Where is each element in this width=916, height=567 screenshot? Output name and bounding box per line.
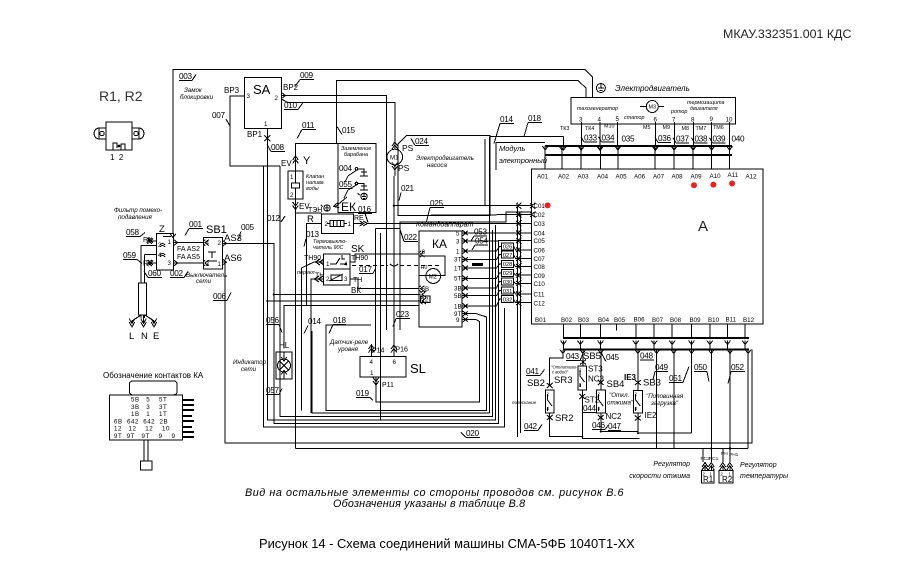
svg-text:ТН90: ТН90 bbox=[304, 255, 321, 262]
svg-text:027: 027 bbox=[503, 253, 513, 259]
svg-text:057: 057 bbox=[266, 386, 280, 395]
svg-text:ТМ7: ТМ7 bbox=[696, 126, 707, 132]
contact 004 bbox=[339, 164, 368, 176]
svg-text:044: 044 bbox=[583, 404, 597, 413]
svg-text:КА: КА bbox=[432, 237, 447, 251]
svg-text:Рисунок 14 - Схема соединений: Рисунок 14 - Схема соединений машины СМА… bbox=[259, 536, 635, 551]
thermistor TH box bbox=[324, 269, 350, 285]
wire IE2 bottom bbox=[638, 413, 692, 433]
svg-text:B09: B09 bbox=[690, 317, 702, 324]
label 043 bbox=[566, 352, 584, 361]
svg-text:052: 052 bbox=[731, 363, 745, 372]
svg-text:4: 4 bbox=[206, 240, 210, 247]
svg-text:B06: B06 bbox=[634, 317, 646, 324]
svg-text:059: 059 bbox=[123, 251, 137, 260]
svg-text:РС1: РС1 bbox=[709, 456, 719, 462]
svg-text:ТЭН: ТЭН bbox=[308, 207, 322, 214]
svg-text:2: 2 bbox=[547, 392, 550, 397]
X mark above SB2 bbox=[547, 383, 553, 388]
svg-text:4: 4 bbox=[598, 406, 601, 411]
label 003 bbox=[179, 72, 196, 81]
svg-text:042: 042 bbox=[524, 422, 538, 431]
level sensor SL bbox=[360, 357, 406, 378]
svg-text:Н0: Н0 bbox=[421, 265, 428, 271]
thermal switch SK (TH90) bbox=[324, 254, 350, 269]
wires 004/055 to ground bbox=[344, 170, 357, 198]
svg-text:SL: SL bbox=[410, 361, 426, 376]
wire pump box bottom to C02 bbox=[398, 215, 530, 216]
wire drum-ground to motor (second top line) bbox=[337, 81, 587, 144]
svg-text:А: А bbox=[698, 218, 708, 235]
boxed wire labels 026-032 bbox=[502, 243, 514, 304]
pump enclosure box 024 bbox=[398, 136, 490, 216]
main motor box bbox=[571, 98, 736, 124]
svg-text:сети: сети bbox=[196, 278, 212, 285]
svg-text:043: 043 bbox=[566, 352, 580, 361]
label 046 bbox=[592, 421, 608, 430]
X mark above SB3 button bbox=[635, 380, 641, 385]
label 021 bbox=[399, 184, 415, 201]
svg-text:047: 047 bbox=[608, 422, 622, 431]
svg-text:A03: A03 bbox=[578, 174, 590, 181]
svg-text:BP3: BP3 bbox=[224, 86, 240, 95]
svg-text:046: 046 bbox=[592, 421, 606, 430]
svg-text:040: 040 bbox=[732, 135, 746, 144]
svg-text:A01: A01 bbox=[537, 174, 549, 181]
svg-text:насоса: насоса bbox=[427, 162, 447, 169]
label 006 bbox=[213, 292, 231, 301]
svg-text:М1: М1 bbox=[390, 155, 399, 162]
label 052 bbox=[728, 363, 745, 384]
svg-text:P16: P16 bbox=[396, 347, 409, 354]
label 018 bbox=[524, 114, 542, 137]
svg-text:М3: М3 bbox=[649, 105, 657, 111]
contact x-marks at KA edge bbox=[463, 231, 467, 322]
svg-text:PS: PS bbox=[398, 163, 410, 173]
svg-text:скорости отжима: скорости отжима bbox=[629, 473, 690, 480]
label 002 bbox=[170, 269, 188, 278]
svg-text:SK: SK bbox=[351, 244, 365, 255]
svg-text:BP1: BP1 bbox=[247, 130, 263, 139]
svg-text:C08: C08 bbox=[534, 264, 546, 271]
svg-text:NC2: NC2 bbox=[606, 412, 623, 421]
svg-text:6В: 6В bbox=[422, 286, 430, 293]
svg-text:C05: C05 bbox=[534, 238, 546, 245]
svg-text:048: 048 bbox=[640, 352, 654, 361]
svg-text:FA AS2: FA AS2 bbox=[177, 246, 200, 253]
svg-text:025: 025 bbox=[430, 199, 444, 208]
svg-text:A02: A02 bbox=[558, 174, 570, 181]
svg-text:L: L bbox=[129, 331, 134, 342]
label 020 bbox=[461, 429, 480, 438]
svg-text:4: 4 bbox=[370, 359, 374, 366]
svg-text:сети: сети bbox=[241, 366, 257, 373]
B pin verticals down to button bus bbox=[564, 324, 746, 350]
label 019 bbox=[356, 389, 373, 401]
svg-text:загрузка": загрузка" bbox=[650, 400, 679, 407]
svg-text:034: 034 bbox=[602, 134, 616, 143]
svg-text:Датчик-реле: Датчик-реле bbox=[329, 339, 369, 346]
svg-text:Обозначения указаны в таблице: Обозначения указаны в таблице В.8 bbox=[333, 498, 525, 510]
svg-text:с водой": с водой" bbox=[552, 370, 569, 375]
red dots A09 A10 A11 bbox=[691, 182, 697, 188]
button ST2/NC2 (SB4 spin off) bbox=[596, 390, 605, 413]
svg-text:Регулятор: Регулятор bbox=[653, 461, 690, 468]
svg-text:12 12 12 10: 12 12 12 10 bbox=[114, 426, 170, 433]
svg-text:РН: РН bbox=[721, 451, 728, 457]
svg-text:2: 2 bbox=[218, 240, 222, 247]
svg-text:014: 014 bbox=[308, 317, 322, 326]
svg-text:5: 5 bbox=[616, 116, 620, 123]
svg-text:6: 6 bbox=[654, 117, 658, 124]
label 009 bbox=[295, 71, 314, 87]
svg-text:R1, R2: R1, R2 bbox=[99, 88, 143, 104]
motor ground symbol bbox=[596, 84, 605, 93]
svg-text:ротор: ротор bbox=[670, 109, 687, 115]
door lock SA bbox=[245, 77, 282, 128]
svg-text:029: 029 bbox=[503, 271, 513, 277]
svg-text:039: 039 bbox=[713, 135, 727, 144]
button bus bars bbox=[563, 338, 749, 350]
svg-text:P11: P11 bbox=[382, 382, 394, 389]
svg-text:SB4: SB4 bbox=[607, 379, 625, 390]
svg-text:035: 035 bbox=[622, 135, 636, 144]
thick black dash on wire 028 bbox=[472, 263, 483, 266]
svg-text:ВК: ВК bbox=[351, 286, 361, 295]
label 014b bbox=[304, 317, 322, 334]
wire P11 (019) loop to KA contact 9 bbox=[376, 320, 480, 402]
svg-text:3В 3 3Т: 3В 3 3Т bbox=[131, 404, 167, 411]
vertical harness bundle through KA contact rows bbox=[485, 136, 563, 413]
svg-text:041: 041 bbox=[526, 367, 540, 376]
svg-text:полоскание: полоскание bbox=[512, 400, 537, 405]
svg-text:037: 037 bbox=[676, 135, 690, 144]
wire TH90 right pin to KA 6 bbox=[350, 254, 419, 262]
svg-text:3: 3 bbox=[247, 93, 251, 100]
svg-text:М9: М9 bbox=[663, 125, 671, 131]
button SB2 (rinse hold) bbox=[545, 390, 554, 413]
motor harness wire labels TK3 TK4 M10 M5 M9 M8 TM7 TM6 bbox=[560, 124, 724, 133]
svg-text:электронный: электронный bbox=[499, 156, 548, 165]
enclosure 018 around SL bbox=[326, 314, 487, 411]
svg-text:3: 3 bbox=[344, 276, 348, 283]
svg-text:3: 3 bbox=[168, 260, 172, 267]
svg-text:022: 022 bbox=[404, 233, 418, 242]
svg-text:9: 9 bbox=[710, 116, 714, 123]
KA right contact wires with arrows bbox=[462, 233, 488, 319]
wire Z pin top from frame bbox=[172, 226, 174, 234]
svg-text:1В 1 1Т: 1В 1 1Т bbox=[131, 411, 167, 418]
svg-text:013: 013 bbox=[306, 230, 320, 239]
enclosure 014 bbox=[312, 331, 490, 413]
A pin vertical wires from bus to module bbox=[545, 146, 729, 169]
junction dots bbox=[266, 205, 731, 450]
label 054 bbox=[472, 237, 489, 251]
heating element R/RE box bbox=[322, 214, 354, 233]
svg-text:A06: A06 bbox=[634, 174, 646, 181]
svg-text:019: 019 bbox=[356, 389, 370, 398]
svg-text:2: 2 bbox=[325, 221, 329, 228]
svg-text:050: 050 bbox=[694, 363, 708, 372]
svg-text:чатель 90С: чатель 90С bbox=[313, 245, 343, 251]
wire BP3 from SA to valve EV bbox=[230, 96, 280, 166]
svg-text:002: 002 bbox=[170, 269, 184, 278]
x marks on FA wires bbox=[149, 239, 154, 266]
svg-text:C09: C09 bbox=[534, 273, 546, 280]
svg-text:SA: SA bbox=[253, 82, 271, 97]
svg-text:Командоаппарат: Командоаппарат bbox=[416, 221, 474, 229]
svg-text:B12: B12 bbox=[743, 317, 755, 324]
svg-text:060: 060 bbox=[148, 269, 162, 278]
KA left contact 12 (boxed) bbox=[421, 296, 431, 303]
label 001 bbox=[185, 220, 203, 236]
svg-text:021: 021 bbox=[401, 184, 415, 193]
label 007 bbox=[212, 111, 230, 126]
svg-text:005: 005 bbox=[241, 223, 255, 232]
svg-text:B11: B11 bbox=[726, 317, 737, 324]
svg-text:A10: A10 bbox=[710, 173, 722, 180]
svg-text:барабана: барабана bbox=[344, 152, 368, 158]
label 012 bbox=[267, 214, 285, 223]
wire SR3 bottom down (ST2/044) bbox=[582, 390, 639, 439]
drum grounding box Заземление барабана bbox=[338, 144, 376, 213]
svg-text:C01: C01 bbox=[534, 203, 546, 210]
wire M1 bottom down and to C01 bbox=[393, 176, 395, 357]
svg-text:045: 045 bbox=[606, 353, 620, 362]
svg-text:1: 1 bbox=[326, 261, 330, 268]
label 010 bbox=[284, 101, 303, 110]
svg-text:2: 2 bbox=[598, 392, 601, 397]
svg-text:2: 2 bbox=[635, 392, 638, 397]
label 060 bbox=[144, 269, 162, 278]
R pins vertical stubs bbox=[705, 467, 730, 471]
wire BP2 from SA pin2 to pump bundle bbox=[282, 96, 387, 331]
svg-text:ТК4: ТК4 bbox=[585, 126, 594, 132]
svg-text:SR3: SR3 bbox=[554, 375, 572, 386]
wire AS3 (005) from SB1 to KA bbox=[222, 243, 420, 294]
wires KA contacts to module C04..C10 bbox=[476, 233, 516, 306]
motor symbol M3 bbox=[640, 101, 664, 113]
svg-text:C07: C07 bbox=[534, 256, 546, 263]
svg-text:R2: R2 bbox=[722, 475, 733, 484]
C pin labels bbox=[534, 203, 546, 308]
svg-text:053: 053 bbox=[474, 228, 488, 237]
red dot C01 bbox=[545, 202, 551, 208]
svg-text:4: 4 bbox=[598, 117, 602, 124]
wire heater pin2 left down bbox=[307, 224, 322, 306]
svg-text:SR2: SR2 bbox=[555, 413, 573, 424]
svg-text:028: 028 bbox=[503, 262, 513, 268]
svg-text:004: 004 bbox=[339, 164, 353, 173]
table bottom connector bbox=[144, 440, 148, 461]
svg-text:AS6: AS6 bbox=[224, 253, 242, 264]
svg-text:018: 018 bbox=[528, 114, 542, 123]
svg-text:ТН90: ТН90 bbox=[351, 255, 368, 262]
svg-text:двигателя: двигателя bbox=[690, 106, 718, 112]
dashed mechanical link TH90 to KA motor bbox=[352, 265, 388, 267]
wire TH left pin down bbox=[311, 279, 324, 413]
label 050 bbox=[694, 363, 709, 382]
svg-text:B05: B05 bbox=[614, 317, 626, 324]
svg-text:уровня: уровня bbox=[337, 346, 359, 353]
svg-text:C12: C12 bbox=[534, 301, 546, 308]
label 057 bbox=[266, 386, 282, 395]
label 013 bbox=[304, 230, 320, 247]
svg-text:4: 4 bbox=[547, 406, 550, 411]
X mark above SR3 bbox=[580, 360, 586, 365]
svg-text:Электродвигатель: Электродвигатель bbox=[416, 155, 474, 162]
svg-text:ЕК: ЕК bbox=[341, 200, 356, 214]
svg-text:"Откл.: "Откл. bbox=[609, 392, 629, 399]
module C pin entry arrows bbox=[516, 206, 532, 303]
label 047 bbox=[608, 422, 622, 431]
svg-text:5Т: 5Т bbox=[454, 276, 461, 283]
svg-text:032: 032 bbox=[503, 297, 513, 303]
svg-text:5В 5 5Т: 5В 5 5Т bbox=[131, 397, 167, 404]
wire BP1 (008) from SA pin1 down bbox=[267, 128, 420, 301]
svg-text:Модуль: Модуль bbox=[499, 144, 525, 153]
svg-text:9: 9 bbox=[456, 317, 460, 324]
svg-text:2: 2 bbox=[326, 276, 330, 283]
svg-text:Электродвигатель: Электродвигатель bbox=[615, 84, 690, 93]
wires at y448.5 feeding R1 R2 pins bbox=[703, 449, 730, 463]
electronic module A big box bbox=[532, 169, 763, 324]
svg-text:031: 031 bbox=[503, 289, 513, 295]
label 024 bbox=[411, 137, 429, 146]
svg-text:006: 006 bbox=[213, 292, 227, 301]
svg-text:отжима": отжима" bbox=[607, 400, 634, 407]
svg-text:N: N bbox=[141, 331, 148, 342]
svg-text:RE: RE bbox=[354, 215, 364, 222]
label 048 bbox=[640, 352, 654, 361]
verticals below button bus bbox=[550, 350, 748, 463]
button IE3/IE2 (SB3 half load) bbox=[634, 390, 643, 413]
ground symbol in drum box bbox=[358, 193, 367, 199]
X mark above SB4 button bbox=[598, 380, 604, 385]
svg-text:1Т: 1Т bbox=[454, 266, 461, 273]
regulator R1/R2 component symbol bbox=[94, 122, 144, 150]
svg-text:B10: B10 bbox=[708, 317, 720, 324]
table right pins bbox=[182, 400, 194, 437]
svg-text:C04: C04 bbox=[534, 231, 546, 238]
svg-text:1: 1 bbox=[218, 261, 222, 268]
svg-text:3: 3 bbox=[579, 117, 583, 124]
svg-text:018: 018 bbox=[333, 316, 347, 325]
wire SB2 bottom (SR2/042) bbox=[550, 413, 583, 437]
svg-text:015: 015 bbox=[342, 126, 356, 135]
svg-text:ТК3: ТК3 bbox=[560, 126, 569, 132]
svg-text:Обозначение контактов КА: Обозначение контактов КА bbox=[103, 371, 204, 380]
svg-text:B08: B08 bbox=[670, 317, 682, 324]
label 056 bbox=[266, 316, 282, 333]
noise filter Z bbox=[156, 224, 173, 270]
wires into Z left pins bbox=[147, 240, 157, 242]
svg-text:Регулятор: Регулятор bbox=[740, 462, 777, 469]
svg-text:4: 4 bbox=[579, 383, 582, 388]
temperature/speed regulators R1 R2 bbox=[701, 471, 714, 484]
svg-text:C11: C11 bbox=[534, 292, 545, 299]
electronic module label box (Модуль электронный) bbox=[496, 143, 545, 170]
svg-text:017: 017 bbox=[359, 265, 373, 274]
wire 003 loop: top frame from Z filter up and across to motor bbox=[173, 70, 593, 227]
svg-text:007: 007 bbox=[212, 111, 226, 120]
wire 010 from SA to bundle bbox=[282, 99, 395, 141]
mains cable from Z down bbox=[141, 246, 145, 284]
wire NC2 bottom bbox=[601, 413, 638, 432]
svg-text:049: 049 bbox=[655, 363, 669, 372]
svg-text:Фильтр помехо-: Фильтр помехо- bbox=[114, 207, 162, 214]
button SR3 of SB5 bbox=[578, 366, 587, 390]
svg-text:4: 4 bbox=[635, 406, 638, 411]
label 014 bbox=[494, 115, 514, 144]
mains ground arrows L N E bbox=[132, 315, 154, 324]
svg-text:AS3: AS3 bbox=[224, 233, 242, 244]
svg-text:036: 036 bbox=[658, 134, 672, 143]
svg-text:A11: A11 bbox=[728, 172, 739, 179]
label 044 bbox=[583, 404, 597, 413]
svg-text:1: 1 bbox=[456, 249, 460, 256]
svg-text:статор: статор bbox=[624, 115, 645, 121]
svg-text:024: 024 bbox=[415, 137, 429, 146]
svg-text:МКАУ.332351.001 КДС: МКАУ.332351.001 КДС bbox=[723, 27, 851, 41]
svg-text:5В: 5В bbox=[454, 293, 462, 300]
svg-text:020: 020 bbox=[466, 429, 480, 438]
svg-text:ТМ6: ТМ6 bbox=[713, 125, 724, 131]
svg-text:1: 1 bbox=[370, 370, 374, 377]
motor pin wires down to bus bbox=[564, 122, 730, 146]
svg-text:051: 051 bbox=[669, 374, 683, 383]
svg-text:6В 642 642 2В: 6В 642 642 2В bbox=[114, 418, 168, 425]
svg-text:3: 3 bbox=[456, 239, 460, 246]
B pin labels bbox=[535, 317, 755, 325]
svg-text:блокировки: блокировки bbox=[180, 94, 214, 101]
svg-text:C02: C02 bbox=[534, 212, 546, 219]
svg-text:1: 1 bbox=[168, 239, 172, 246]
svg-text:6: 6 bbox=[393, 359, 397, 366]
svg-text:1В: 1В bbox=[454, 304, 462, 311]
svg-text:E: E bbox=[153, 331, 159, 342]
enclosure 056 bbox=[280, 166, 493, 417]
svg-text:температуры: температуры bbox=[740, 473, 789, 480]
svg-text:IE3: IE3 bbox=[624, 373, 637, 382]
label 016 bbox=[358, 205, 372, 223]
svg-text:1: 1 bbox=[264, 121, 268, 128]
svg-text:2: 2 bbox=[290, 192, 294, 199]
svg-text:6: 6 bbox=[422, 249, 426, 256]
svg-text:7: 7 bbox=[672, 117, 676, 124]
svg-text:B01: B01 bbox=[535, 317, 547, 324]
svg-text:воды: воды bbox=[306, 186, 319, 192]
svg-text:EV: EV bbox=[281, 159, 292, 168]
svg-text:М2: М2 bbox=[429, 274, 438, 280]
svg-text:2: 2 bbox=[275, 95, 279, 102]
water valve Y bbox=[296, 144, 338, 171]
R1 R2 pin arrows bbox=[702, 463, 708, 471]
svg-text:B02: B02 bbox=[561, 317, 573, 324]
X mark 008 junction bbox=[264, 135, 270, 141]
svg-text:B07: B07 bbox=[652, 317, 664, 324]
svg-text:3Т: 3Т bbox=[454, 257, 461, 264]
label 025 bbox=[427, 199, 445, 222]
svg-text:NC3: NC3 bbox=[588, 375, 605, 384]
mains indicator HL bbox=[276, 352, 292, 379]
svg-text:4: 4 bbox=[158, 252, 162, 259]
svg-text:2: 2 bbox=[579, 368, 582, 373]
svg-text:М8: М8 bbox=[682, 126, 690, 132]
ground symbol near EK bbox=[321, 205, 330, 211]
svg-text:"Половинная: "Половинная bbox=[646, 393, 684, 400]
bottom left nested harness loops bbox=[264, 166, 748, 449]
